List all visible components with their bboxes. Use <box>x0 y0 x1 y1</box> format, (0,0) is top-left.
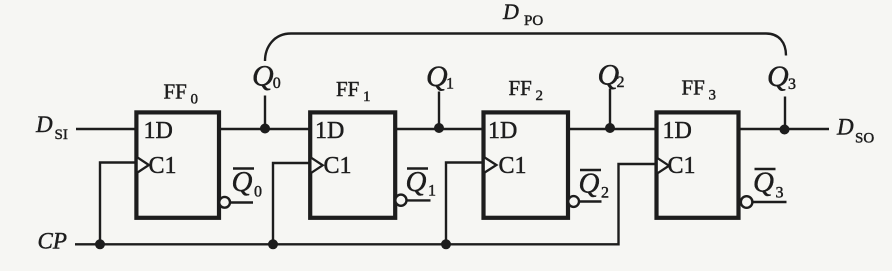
svg-text:0: 0 <box>273 75 281 92</box>
svg-text:FF: FF <box>682 76 705 100</box>
svg-text:D: D <box>502 0 519 24</box>
svg-text:1: 1 <box>428 183 436 200</box>
svg-text:CP: CP <box>38 229 67 254</box>
svg-text:3: 3 <box>776 185 784 202</box>
svg-text:Q: Q <box>767 60 789 93</box>
svg-text:D: D <box>35 112 53 137</box>
svg-text:Q: Q <box>252 60 274 93</box>
svg-text:3: 3 <box>709 88 717 104</box>
svg-text:Q: Q <box>579 168 600 200</box>
svg-text:2: 2 <box>601 185 609 202</box>
svg-text:1: 1 <box>446 76 454 93</box>
svg-text:FF: FF <box>336 77 359 101</box>
svg-text:1D: 1D <box>488 118 517 144</box>
svg-text:Q: Q <box>426 60 448 93</box>
svg-text:2: 2 <box>536 88 544 104</box>
svg-text:C1: C1 <box>668 153 696 179</box>
svg-text:SI: SI <box>55 127 68 143</box>
svg-text:Q: Q <box>406 166 427 198</box>
svg-text:0: 0 <box>191 92 199 108</box>
svg-text:1D: 1D <box>663 118 692 144</box>
svg-text:C1: C1 <box>149 153 177 179</box>
svg-text:2: 2 <box>617 74 625 91</box>
svg-text:C1: C1 <box>499 153 527 179</box>
svg-text:SO: SO <box>855 131 874 147</box>
svg-text:FF: FF <box>164 80 187 104</box>
svg-text:Q: Q <box>232 166 253 198</box>
svg-text:1D: 1D <box>144 118 173 144</box>
svg-text:C1: C1 <box>324 153 352 179</box>
svg-text:PO: PO <box>524 13 543 29</box>
svg-text:1: 1 <box>363 89 371 105</box>
svg-text:Q: Q <box>753 167 774 199</box>
svg-text:1D: 1D <box>315 118 344 144</box>
svg-text:D: D <box>836 115 854 140</box>
svg-text:FF: FF <box>509 76 532 100</box>
svg-text:0: 0 <box>254 184 262 201</box>
svg-text:3: 3 <box>788 76 796 93</box>
